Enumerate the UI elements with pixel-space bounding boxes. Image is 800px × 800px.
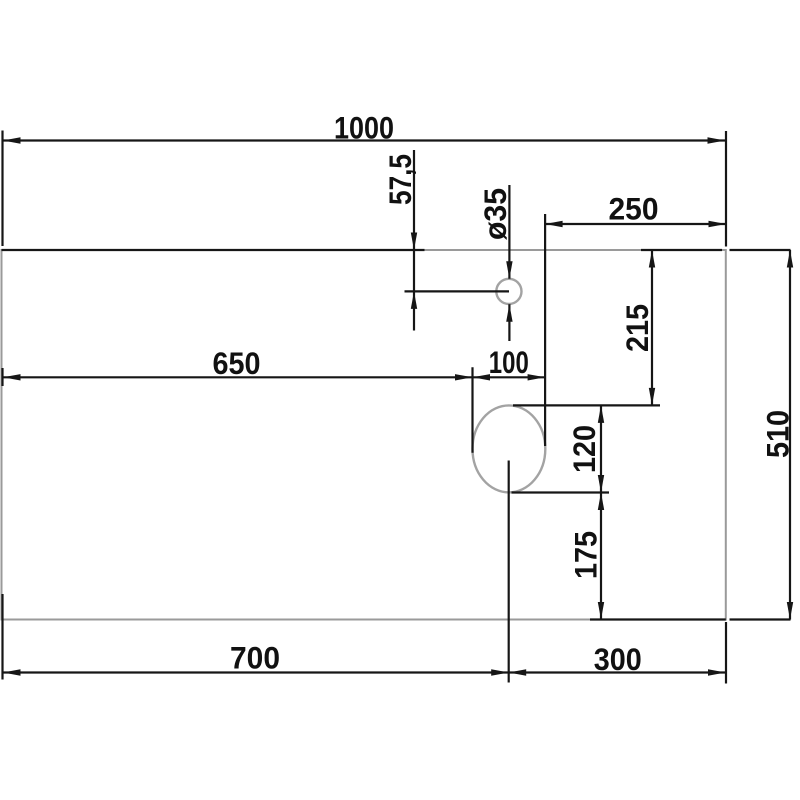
arrow down to hole top: [506, 261, 512, 279]
arrow up to hole bottom: [506, 304, 512, 322]
extension line right: [725, 131, 727, 247]
arrow down: [598, 602, 604, 620]
arrow left: [509, 669, 527, 675]
extension line at x=545: [544, 214, 546, 446]
svg-text:650: 650: [213, 345, 261, 381]
dimension 57,5 (top edge to faucet centre): [2, 150, 510, 331]
dimension 700 (left edge to drain centre): [3, 461, 509, 683]
svg-text:ø35: ø35: [477, 188, 513, 240]
left extension: [1, 368, 3, 386]
arrow right: [455, 374, 473, 380]
extension line left: [1, 131, 3, 247]
bottom extension at drain bottom: [512, 491, 610, 493]
drain hole oval: [473, 405, 546, 492]
bottom extension overlay on bottom edge: [590, 618, 726, 620]
dimension 175 (drain bottom to bottom edge): [590, 493, 726, 620]
arrow down at top edge: [411, 233, 417, 251]
svg-text:57,5: 57,5: [382, 154, 418, 205]
arrow down: [598, 475, 604, 493]
svg-text:700: 700: [230, 640, 280, 676]
dimension 650 (left edge to drain left): [3, 367, 473, 453]
arrow right: [709, 221, 727, 227]
bottom extension: [730, 618, 791, 620]
right extension: [725, 622, 727, 684]
dimension line 1000: [3, 139, 725, 141]
svg-text:1000: 1000: [334, 110, 394, 146]
dimension 120 (drain height): [512, 405, 610, 492]
arrow left: [3, 669, 21, 675]
arrow up: [787, 250, 793, 268]
svg-text:510: 510: [760, 410, 796, 458]
left extension: [1, 594, 3, 680]
upper leader line: [508, 185, 510, 279]
arrow right: [491, 669, 509, 675]
arrow left: [473, 374, 491, 380]
dimension line 300: [509, 671, 726, 673]
dimension line 250: [545, 223, 726, 225]
dimension line 650: [3, 376, 473, 378]
dimension line 510: [789, 250, 791, 620]
leader ø35 (faucet hole): [506, 185, 512, 341]
arrow down: [649, 388, 655, 406]
dimension line 215: [651, 250, 653, 405]
svg-text:175: 175: [568, 531, 604, 579]
arrow down: [787, 602, 793, 620]
dimension line 175: [600, 493, 602, 620]
arrow up: [649, 250, 655, 268]
arrow left: [545, 221, 563, 227]
faucet centre line: [405, 290, 510, 292]
dimension 100 (drain width): [473, 374, 546, 380]
upper dimension line: [413, 150, 415, 291]
countertop outline: [2, 250, 726, 620]
top extension: [730, 249, 791, 251]
dimension 300 (drain centre to right edge): [509, 622, 726, 684]
dimension 1000 (top overall width): [3, 131, 727, 247]
svg-text:300: 300: [594, 641, 642, 677]
dimension line 100: [473, 376, 546, 378]
arrow right: [708, 669, 726, 675]
arrow up: [598, 405, 604, 423]
arrow right: [708, 137, 726, 143]
arrow right: [528, 374, 546, 380]
right extension at x=472.5: [471, 367, 473, 453]
dimension 250 (top right): [545, 214, 726, 446]
svg-text:215: 215: [619, 304, 655, 352]
faucet hole ø35: [496, 279, 521, 304]
lower leader line: [508, 304, 510, 341]
bottom extension at drain top: [513, 404, 660, 406]
svg-text:250: 250: [609, 191, 659, 227]
lower tail: [413, 291, 415, 331]
arrow left: [3, 374, 21, 380]
dimension 215 (top edge to drain top): [513, 250, 722, 405]
dimension line 700: [3, 671, 509, 673]
arrow up: [598, 493, 604, 511]
dimension line 120: [600, 405, 602, 492]
top extension overlay: [641, 249, 722, 251]
drain centre line: [508, 461, 510, 683]
svg-text:120: 120: [566, 425, 602, 473]
black overlay on top edge: [2, 249, 425, 251]
arrow left: [3, 137, 21, 143]
dimension 510 (right overall height): [730, 250, 794, 620]
arrow up at centre line: [411, 291, 417, 309]
svg-text:100: 100: [489, 344, 529, 380]
